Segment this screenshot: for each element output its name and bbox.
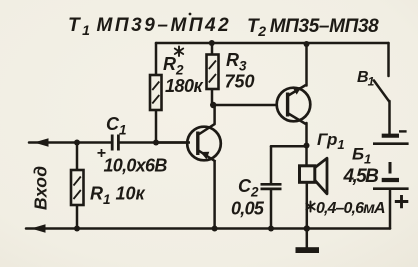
svg-text:0,05: 0,05 bbox=[231, 199, 265, 219]
svg-text:R110к: R110к bbox=[90, 184, 146, 208]
svg-text:10,0х6В: 10,0х6В bbox=[104, 156, 168, 176]
svg-text:180к: 180к bbox=[165, 76, 204, 96]
svg-text:Вход: Вход bbox=[31, 166, 51, 210]
svg-text:750: 750 bbox=[225, 72, 255, 92]
svg-text:4,5В: 4,5В bbox=[343, 166, 380, 187]
svg-text:0,4–0,6мА: 0,4–0,6мА bbox=[316, 200, 385, 217]
